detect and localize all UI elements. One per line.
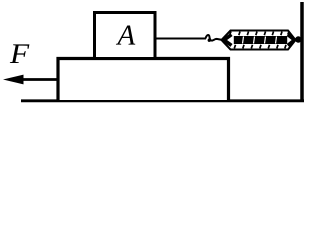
spring left chevron end [224, 35, 232, 46]
wall [300, 2, 304, 101]
block A [95, 13, 156, 59]
cart (bottom block) [58, 59, 229, 101]
knob on wall [295, 36, 301, 42]
wire from A to spring [156, 38, 206, 40]
spring body outline [222, 31, 296, 50]
ground [21, 99, 304, 102]
hook [206, 35, 223, 41]
hook blob [208, 39, 211, 42]
label F [10, 44, 30, 63]
label A [116, 25, 135, 44]
spring right chevron end [288, 35, 295, 46]
spring band white separations [243, 37, 277, 44]
force F arrow [20, 78, 57, 81]
spring coil ticks top [230, 32, 289, 36]
spring coil ticks bottom [234, 45, 286, 49]
spring middle band [234, 36, 287, 44]
